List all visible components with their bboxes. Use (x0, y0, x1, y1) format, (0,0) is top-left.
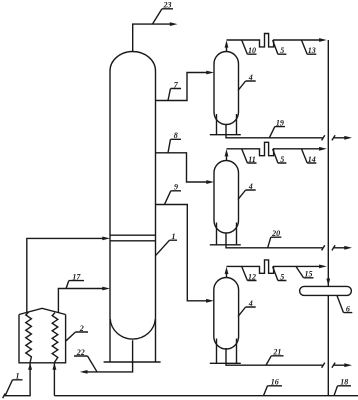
svg-text:23: 23 (163, 1, 172, 10)
svg-text:4: 4 (248, 73, 253, 82)
svg-text:10: 10 (248, 46, 256, 55)
svg-text:18: 18 (340, 378, 348, 387)
svg-text:5: 5 (280, 46, 284, 55)
svg-text:13: 13 (308, 46, 316, 55)
svg-text:12: 12 (248, 272, 256, 281)
svg-text:16: 16 (271, 378, 279, 387)
svg-text:21: 21 (272, 348, 281, 357)
svg-text:15: 15 (305, 270, 313, 279)
svg-text:5: 5 (280, 272, 284, 281)
svg-text:20: 20 (271, 229, 280, 238)
svg-text:9: 9 (174, 183, 178, 192)
svg-text:6: 6 (346, 304, 350, 313)
svg-text:14: 14 (308, 155, 316, 164)
svg-text:1: 1 (16, 372, 20, 381)
svg-text:4: 4 (248, 182, 253, 191)
svg-text:17: 17 (72, 272, 81, 281)
svg-text:11: 11 (248, 155, 256, 164)
svg-text:19: 19 (276, 118, 284, 127)
svg-text:5: 5 (280, 155, 284, 164)
svg-text:1: 1 (172, 232, 176, 241)
svg-text:8: 8 (174, 131, 178, 140)
svg-text:4: 4 (248, 299, 253, 308)
svg-text:22: 22 (76, 348, 85, 357)
svg-text:2: 2 (79, 324, 84, 333)
